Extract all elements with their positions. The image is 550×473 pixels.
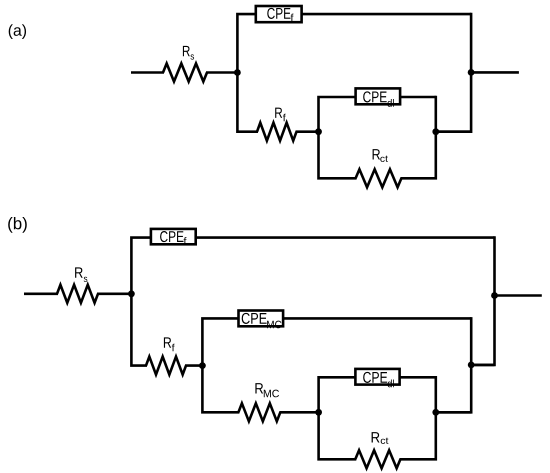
CPE element CPEf (b) <box>151 229 196 245</box>
label Rf (b) <box>164 337 175 351</box>
wire left vertical branch split (a) <box>237 14 258 132</box>
wire input lead (a) <box>131 71 164 74</box>
wire node C to right vertical (a) <box>436 130 471 133</box>
node A junction (a) <box>234 69 241 76</box>
wire inner right vertical (a) <box>400 96 435 179</box>
wire CPEMC to middle right vertical (b) <box>283 317 471 320</box>
wire left vertical branch split (b) <box>131 238 150 366</box>
resistor Rs (a) <box>163 64 207 82</box>
label (a) <box>9 24 26 39</box>
wire outer right vertical (b) <box>470 236 495 365</box>
node C inner junction right (a) <box>432 128 439 135</box>
wire node I to middle right vertical (b) <box>436 411 471 414</box>
wire inner right vertical (b) <box>399 376 435 459</box>
node D output junction (a) <box>468 69 475 76</box>
wire node G to outer right vertical (b) <box>471 364 494 367</box>
wire Rs to node E <box>97 292 131 295</box>
CPE element CPEMC (b) <box>239 311 284 329</box>
resistor Rct (b) <box>355 450 400 468</box>
wire Rf to node F <box>185 364 202 367</box>
wire Rf to node B <box>296 130 319 133</box>
node I inner junction right (b) <box>432 409 439 416</box>
label Rs (a) <box>183 46 194 60</box>
resistor RMC (b) <box>238 403 280 421</box>
wire right vertical (a) <box>435 13 471 132</box>
wire CPEdl to inner right vertical (a) <box>400 96 435 99</box>
wire CPEf to outer right vertical (b) <box>196 236 495 239</box>
node B inner junction left (a) <box>315 128 322 135</box>
wire output lead (b) <box>495 294 542 297</box>
wire CPEf to right vertical (a) <box>302 13 471 16</box>
label Rf (a) <box>275 108 285 122</box>
wire output lead (a) <box>471 71 519 74</box>
node E input junction (b) <box>128 290 135 297</box>
wire middle vertical branch split (b) <box>202 318 239 412</box>
node H inner junction left (b) <box>315 409 322 416</box>
label Rs (b) <box>75 267 87 282</box>
label Rct (a) <box>373 149 388 162</box>
wire input lead (b) <box>24 292 58 295</box>
resistor Rf (a) <box>257 123 297 141</box>
resistor Rf (b) <box>146 357 186 375</box>
label Rct (b) <box>372 432 389 444</box>
wire middle right vertical (b) <box>435 317 471 412</box>
CPE element CPEdl (b) <box>355 369 399 388</box>
label (b) <box>8 217 27 233</box>
resistor Rs (b) <box>57 285 98 303</box>
label RMC (b) <box>255 383 279 397</box>
node J output junction (b) <box>491 292 498 299</box>
wire inner left vertical (a) <box>319 97 357 178</box>
wire RMC to node H <box>279 411 318 414</box>
node F junction after Rf (b) <box>199 362 206 369</box>
wire inner left vertical (b) <box>319 377 357 459</box>
wire Rs to node A <box>206 71 237 74</box>
resistor Rct (a) <box>356 169 402 187</box>
node G junction on middle right vertical (b) <box>468 362 475 369</box>
CPE element CPEdl (a) <box>356 88 401 107</box>
wire CPEdl to inner right vertical (b) <box>400 376 436 379</box>
CPE element CPEf (a) <box>256 6 302 22</box>
